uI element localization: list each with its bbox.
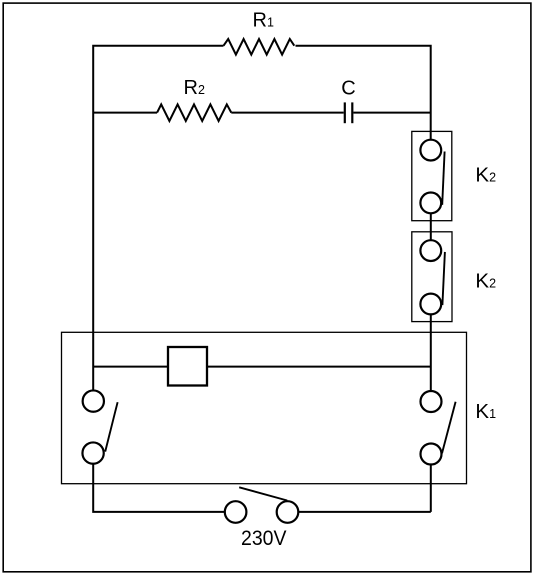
- svg-text:K2: K2: [475, 270, 496, 293]
- svg-text:230V: 230V: [241, 526, 287, 550]
- svg-text:K2: K2: [475, 164, 496, 187]
- svg-text:R2: R2: [184, 77, 205, 99]
- svg-text:K1: K1: [475, 400, 496, 423]
- svg-text:R1: R1: [253, 10, 274, 32]
- svg-text:C: C: [341, 77, 355, 99]
